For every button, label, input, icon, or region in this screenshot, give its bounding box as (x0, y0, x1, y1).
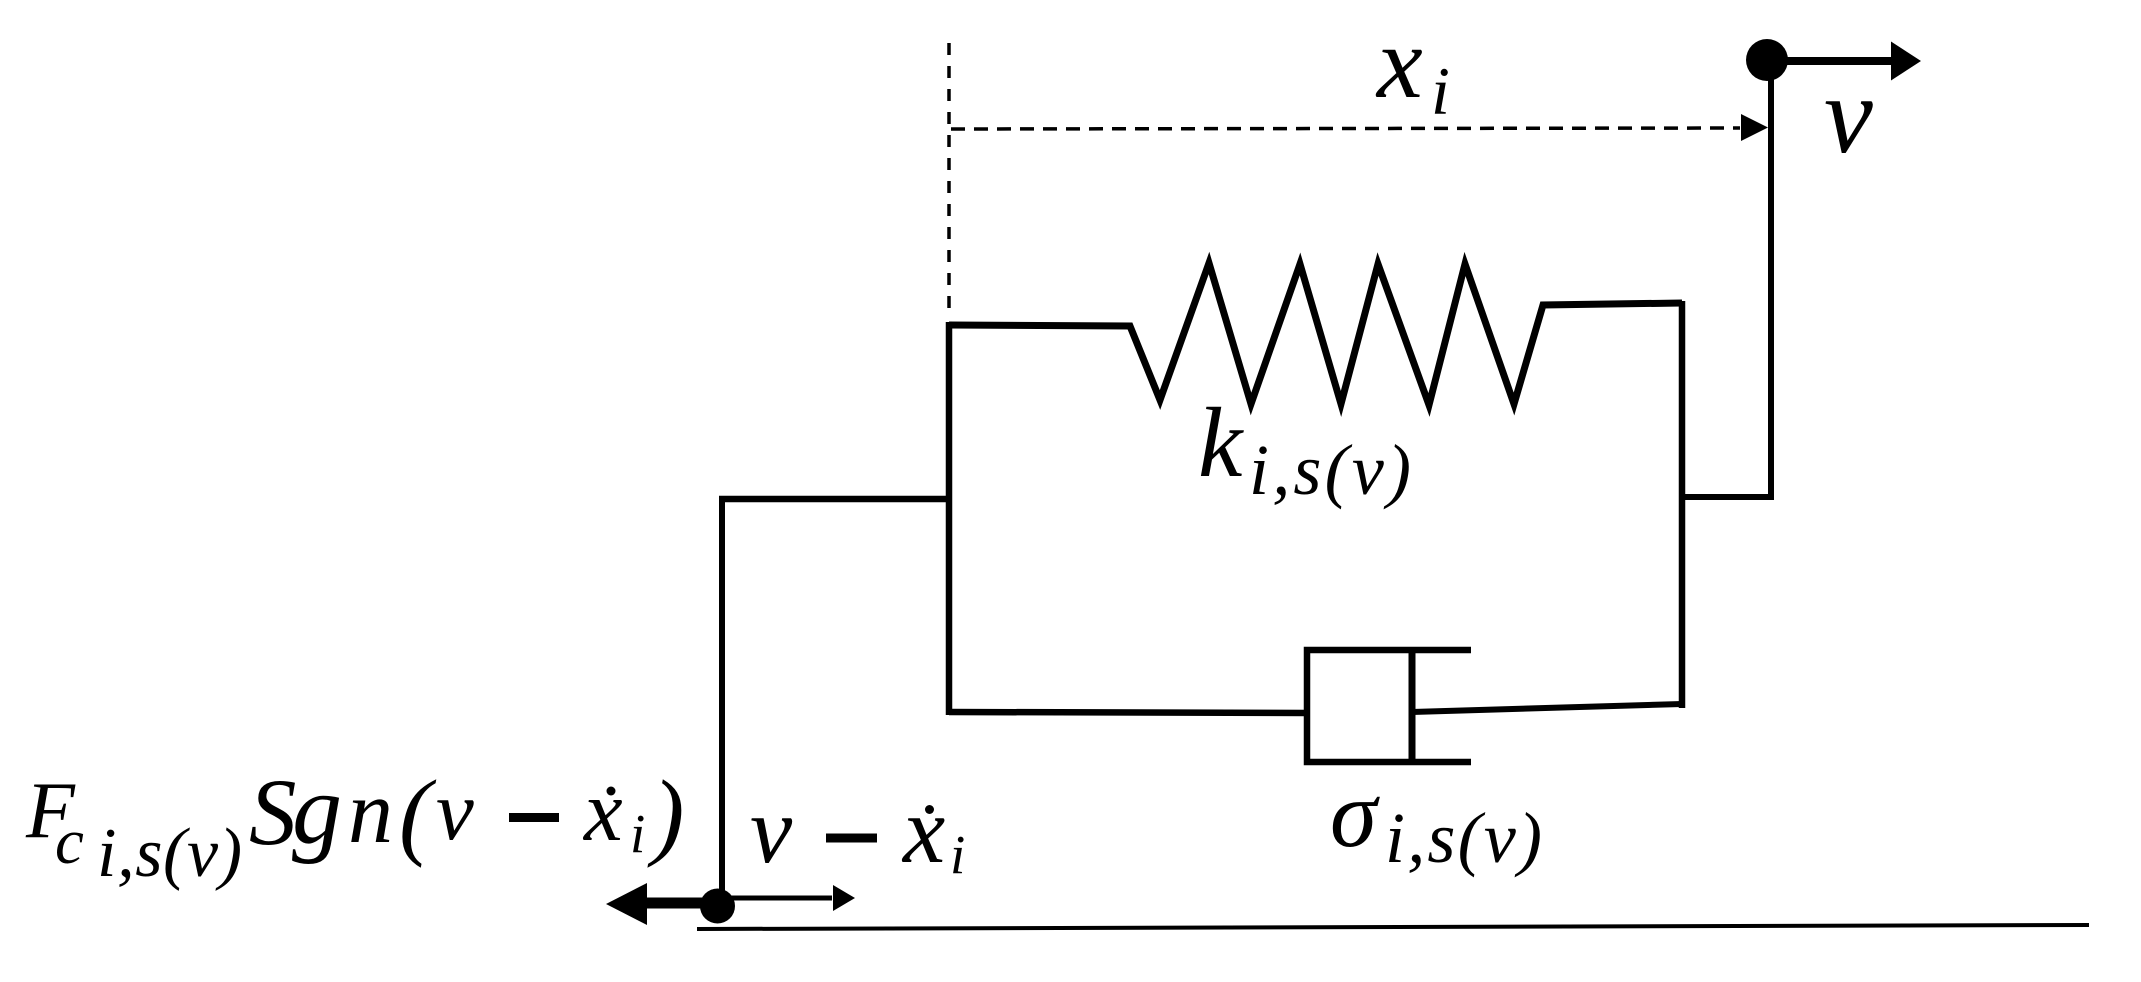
label F_c,i,s(v) Sgn(v - xdot_i) (25, 754, 684, 892)
svg-text:i: i (630, 803, 645, 864)
svg-text:i,s(v): i,s(v) (1385, 798, 1542, 878)
svg-text:c: c (55, 806, 84, 878)
svg-text:n: n (348, 763, 393, 862)
svg-text:v: v (1824, 54, 1873, 176)
svg-text:g: g (292, 754, 342, 865)
wire: left bar of parallel branch (946, 322, 953, 715)
damper cylinder (1307, 650, 1471, 762)
svg-text:i: i (950, 824, 965, 885)
label x_i (1375, 6, 1450, 129)
damper piston rod (1412, 704, 1682, 712)
node dot (mass attachment point) (1746, 39, 1788, 81)
dashed reference vertical line (947, 43, 951, 312)
svg-text:): ) (647, 761, 684, 868)
friction force arrow (thick, left) (606, 883, 719, 925)
wire: left vertical to ground node (719, 499, 725, 908)
wire: bottom branch (949, 712, 1308, 713)
svg-text:x: x (582, 762, 623, 859)
svg-text:σ: σ (1330, 761, 1380, 867)
wire: right vertical from node (1768, 60, 1774, 500)
spring k_i,s(v) (949, 263, 1682, 405)
svg-text:i,s(v): i,s(v) (1249, 430, 1411, 510)
svg-text:S: S (249, 759, 297, 865)
svg-text:x: x (901, 777, 945, 883)
svg-text:x: x (1375, 6, 1423, 120)
wire: left lead (719, 496, 949, 503)
dashed displacement arrow x_i (951, 114, 1768, 141)
label k_i,s(v) (1198, 387, 1411, 510)
label v - xdot_i (750, 777, 965, 885)
svg-text:v: v (750, 777, 793, 883)
ground line (697, 925, 2089, 929)
ground node dot (700, 889, 735, 924)
velocity arrow v (1778, 42, 1921, 81)
label sigma_i,s(v) (1330, 761, 1542, 878)
relative velocity arrow (right) (722, 885, 855, 911)
wire: right bar of parallel branch (1679, 301, 1686, 708)
svg-text:k: k (1198, 387, 1244, 498)
svg-text:i,s(v): i,s(v) (97, 815, 242, 892)
damper piston (1409, 652, 1416, 760)
svg-text:(: ( (399, 761, 437, 868)
svg-text:v: v (436, 764, 474, 858)
svg-text:i: i (1431, 53, 1450, 129)
wire: connector right bar to vertical (1682, 494, 1774, 500)
